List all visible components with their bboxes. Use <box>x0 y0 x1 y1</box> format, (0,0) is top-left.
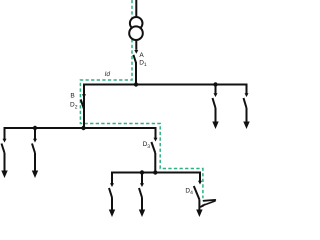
svg-text:A: A <box>139 52 144 59</box>
svg-text:B: B <box>70 92 74 99</box>
svg-text:Id: Id <box>105 71 111 78</box>
